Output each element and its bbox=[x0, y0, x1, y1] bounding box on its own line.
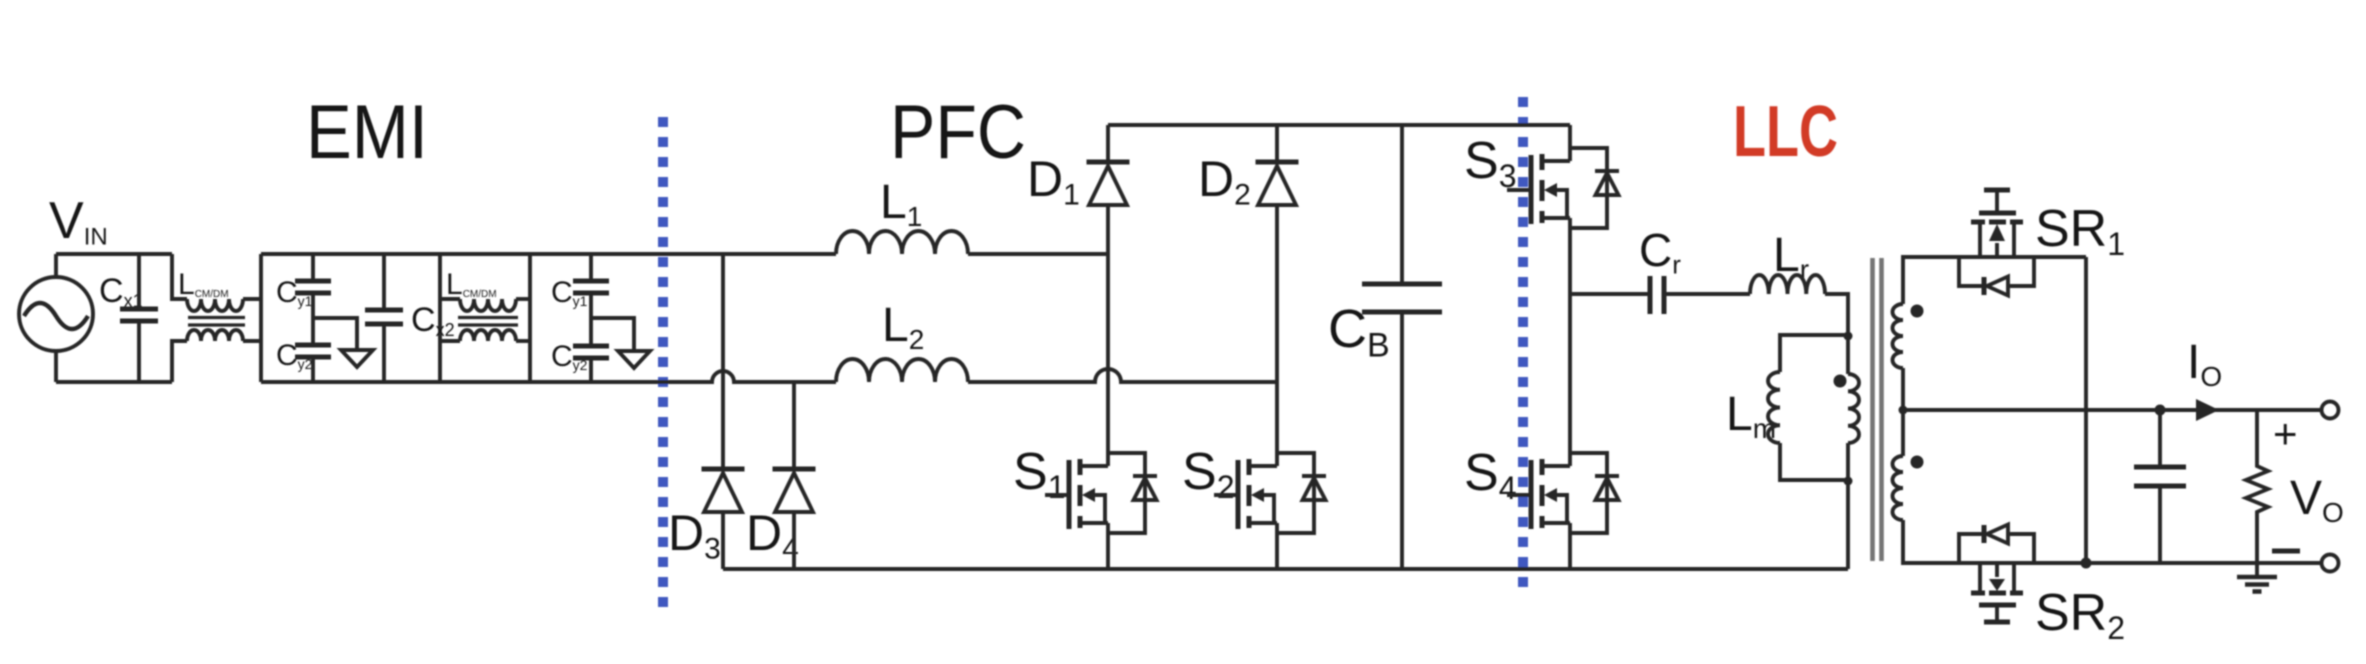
wire D1 leg top bbox=[1106, 125, 1110, 162]
inductor L1 bbox=[836, 231, 968, 254]
wire source top stub bbox=[54, 254, 58, 277]
capacitor Cy2 bbox=[311, 318, 315, 345]
wire D4 feed vertical bbox=[792, 382, 796, 469]
wire bottom rail EMI to L2 with hop over D3 feed bbox=[261, 371, 836, 382]
node secondary top polarity dot bbox=[1911, 305, 1924, 318]
svg-text:LLC: LLC bbox=[1733, 92, 1838, 172]
MOSFET S4 bbox=[1570, 453, 1607, 533]
diode D2 bbox=[1256, 160, 1299, 165]
terminal plus circle bbox=[2322, 402, 2339, 419]
node phase A junction bbox=[721, 252, 725, 256]
wire primary top bbox=[1846, 335, 1850, 374]
capacitor Cy3 bbox=[589, 254, 593, 281]
capacitor Cy4 bbox=[589, 318, 593, 346]
common-mode choke 1 bottom winding bbox=[172, 341, 187, 382]
PFC/LLC boundary dotted line bbox=[1518, 97, 1528, 587]
wire D3 feed vertical bbox=[721, 254, 725, 469]
wire S3 to midpoint bbox=[1568, 218, 1572, 294]
common-mode choke 2 core bbox=[458, 316, 518, 319]
label minus bbox=[2272, 549, 2300, 554]
wire bottom rail EMI left bbox=[56, 380, 172, 384]
wire SR1 to output minus rail bbox=[2084, 257, 2088, 563]
inductor Lm bbox=[1768, 372, 1780, 443]
wire top rail EMI left bbox=[56, 252, 172, 256]
common-mode choke 1 top winding bbox=[172, 254, 187, 299]
wire midpoint to Cr bbox=[1570, 292, 1650, 296]
wire Lr to primary bbox=[1825, 294, 1848, 335]
common-mode choke 2 top winding bbox=[440, 297, 460, 301]
transformer secondary top winding bbox=[1893, 304, 1904, 368]
capacitor Co bbox=[2158, 410, 2162, 467]
wire secondary top lead bbox=[1903, 257, 2086, 304]
svg-text:EMI: EMI bbox=[306, 90, 428, 175]
capacitor Cx1 bbox=[137, 254, 141, 309]
transformer core bbox=[1870, 258, 1875, 561]
MOSFET SR2 bbox=[1978, 563, 1982, 593]
capacitor CB bbox=[1400, 125, 1404, 284]
node center tap junction bbox=[1899, 406, 1908, 415]
wire Cy box 2 left edge bbox=[528, 254, 532, 382]
wire D2 leg top bbox=[1275, 125, 1279, 162]
current arrow Io bbox=[2196, 399, 2219, 421]
wire S3 leg top bbox=[1568, 125, 1572, 161]
wire Cy3 to ground 2 bbox=[591, 318, 634, 351]
wire primary bottom to ground rail bbox=[1846, 443, 1850, 569]
node secondary bottom polarity dot bbox=[1911, 456, 1924, 469]
svg-text:PFC: PFC bbox=[890, 90, 1026, 175]
inductor Lr bbox=[1750, 275, 1825, 294]
common-mode choke 1 core bbox=[188, 316, 245, 319]
wire secondary center to bottom winding bbox=[1901, 410, 1905, 456]
diode D1 bbox=[1087, 160, 1130, 165]
node Lm top junction bbox=[1844, 332, 1853, 341]
node SR1 output junction bbox=[2081, 558, 2092, 569]
wire D1 to S1 bbox=[1106, 205, 1110, 466]
terminal minus circle bbox=[2322, 555, 2339, 572]
wire Lm branch bottom bbox=[1780, 443, 1848, 480]
wire S2 to ground rail bbox=[1275, 523, 1279, 569]
AC source VIN bbox=[19, 277, 93, 351]
ground 1 bbox=[341, 350, 373, 367]
transformer secondary bottom winding bbox=[1893, 456, 1904, 520]
wire Lm branch top bbox=[1780, 335, 1848, 372]
node primary polarity dot bbox=[1834, 375, 1847, 388]
wire PFC top DC rail bbox=[1108, 123, 1570, 127]
wire D2 to S2 bbox=[1275, 205, 1279, 466]
wire Cy1 to ground 1 bbox=[313, 318, 357, 350]
wire L1 to D1 leg bbox=[968, 252, 1108, 256]
wire Cr to Lr bbox=[1664, 292, 1750, 296]
node Lm bottom junction bbox=[1844, 477, 1853, 486]
MOSFET S1 bbox=[1108, 453, 1145, 533]
svg-text:+: + bbox=[2273, 410, 2298, 457]
EMI/PFC boundary dotted line bbox=[658, 117, 668, 607]
wire secondary bottom lead bbox=[1903, 520, 1960, 563]
capacitor Cx2 bbox=[382, 254, 386, 310]
wire center tap line bbox=[1903, 408, 2321, 412]
common-mode choke 2 bottom winding bbox=[440, 339, 460, 343]
ground output bbox=[2255, 563, 2259, 577]
wire S4 to ground rail bbox=[1568, 523, 1572, 569]
wire output minus rail bbox=[1960, 561, 2321, 565]
node output cap junction bbox=[2155, 405, 2166, 416]
MOSFET S2 bbox=[1277, 453, 1314, 533]
MOSFET S3 bbox=[1570, 148, 1607, 228]
resistor load bbox=[2246, 410, 2268, 563]
wire S1 to ground rail bbox=[1106, 523, 1110, 569]
wire D3 to ground rail bbox=[721, 512, 725, 569]
ground 2 bbox=[618, 351, 650, 368]
diode D4 bbox=[773, 467, 816, 472]
capacitor Cy1 bbox=[311, 254, 315, 281]
wire Cy box 1 frame bbox=[259, 254, 263, 382]
MOSFET SR1 bbox=[1978, 222, 1982, 257]
wire bottom ground rail bbox=[723, 567, 1848, 571]
transformer primary winding bbox=[1848, 374, 1859, 443]
capacitor Cr bbox=[1648, 276, 1653, 314]
wire D4 to ground rail bbox=[792, 512, 796, 569]
wire L2 to D2 leg with hop over D1 leg bbox=[968, 369, 1277, 382]
wire source bottom stub bbox=[54, 351, 58, 382]
wire secondary top to center tap bbox=[1901, 368, 1905, 410]
wire top rail EMI to PFC bbox=[261, 252, 836, 256]
wire midpoint to S4 bbox=[1568, 294, 1572, 466]
inductor L2 bbox=[836, 359, 968, 382]
diode D3 bbox=[702, 467, 745, 472]
